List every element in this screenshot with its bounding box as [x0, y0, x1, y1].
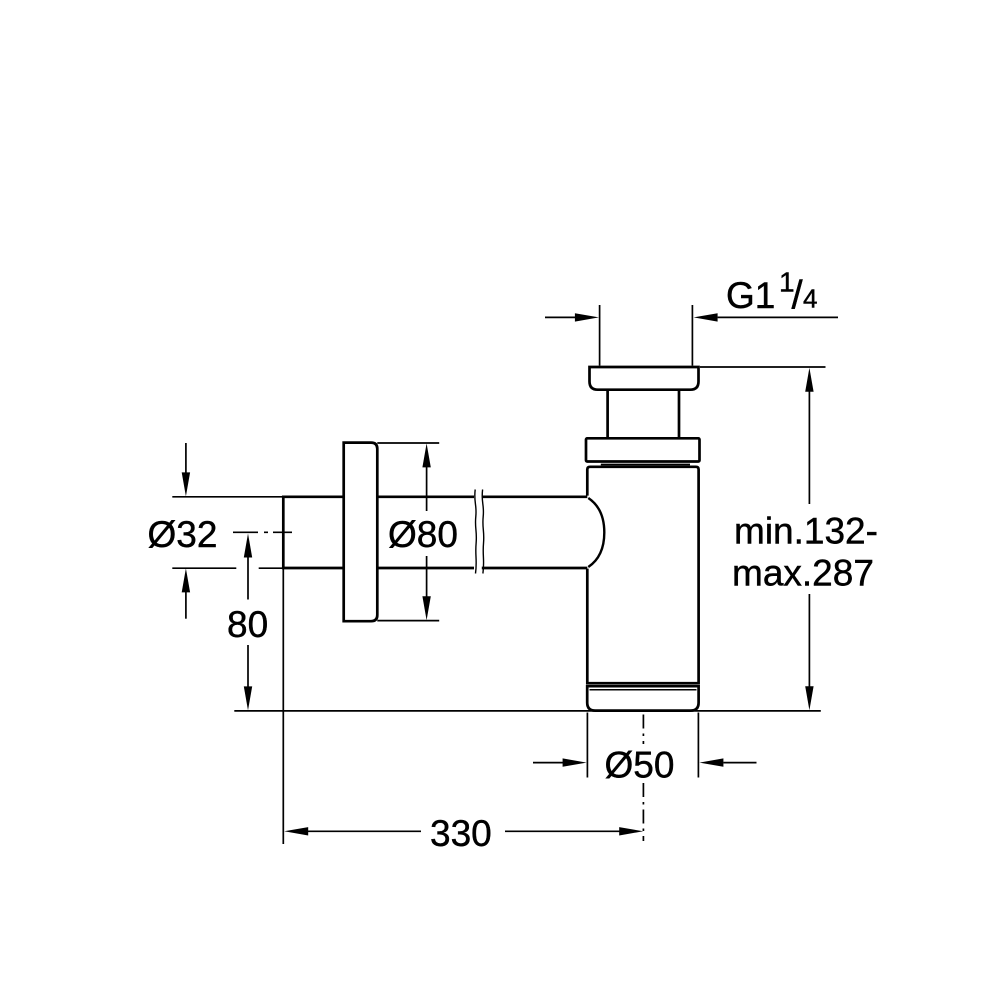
svg-text:Ø50: Ø50	[605, 745, 675, 786]
svg-text:max.287: max.287	[732, 553, 874, 594]
svg-text:/: /	[792, 274, 804, 318]
svg-text:4: 4	[803, 284, 817, 314]
svg-text:G1: G1	[726, 275, 775, 316]
svg-text:min.132-: min.132-	[734, 511, 878, 552]
svg-text:330: 330	[430, 813, 492, 854]
svg-text:80: 80	[227, 604, 268, 645]
svg-text:Ø80: Ø80	[388, 514, 458, 555]
svg-text:Ø32: Ø32	[148, 514, 218, 555]
